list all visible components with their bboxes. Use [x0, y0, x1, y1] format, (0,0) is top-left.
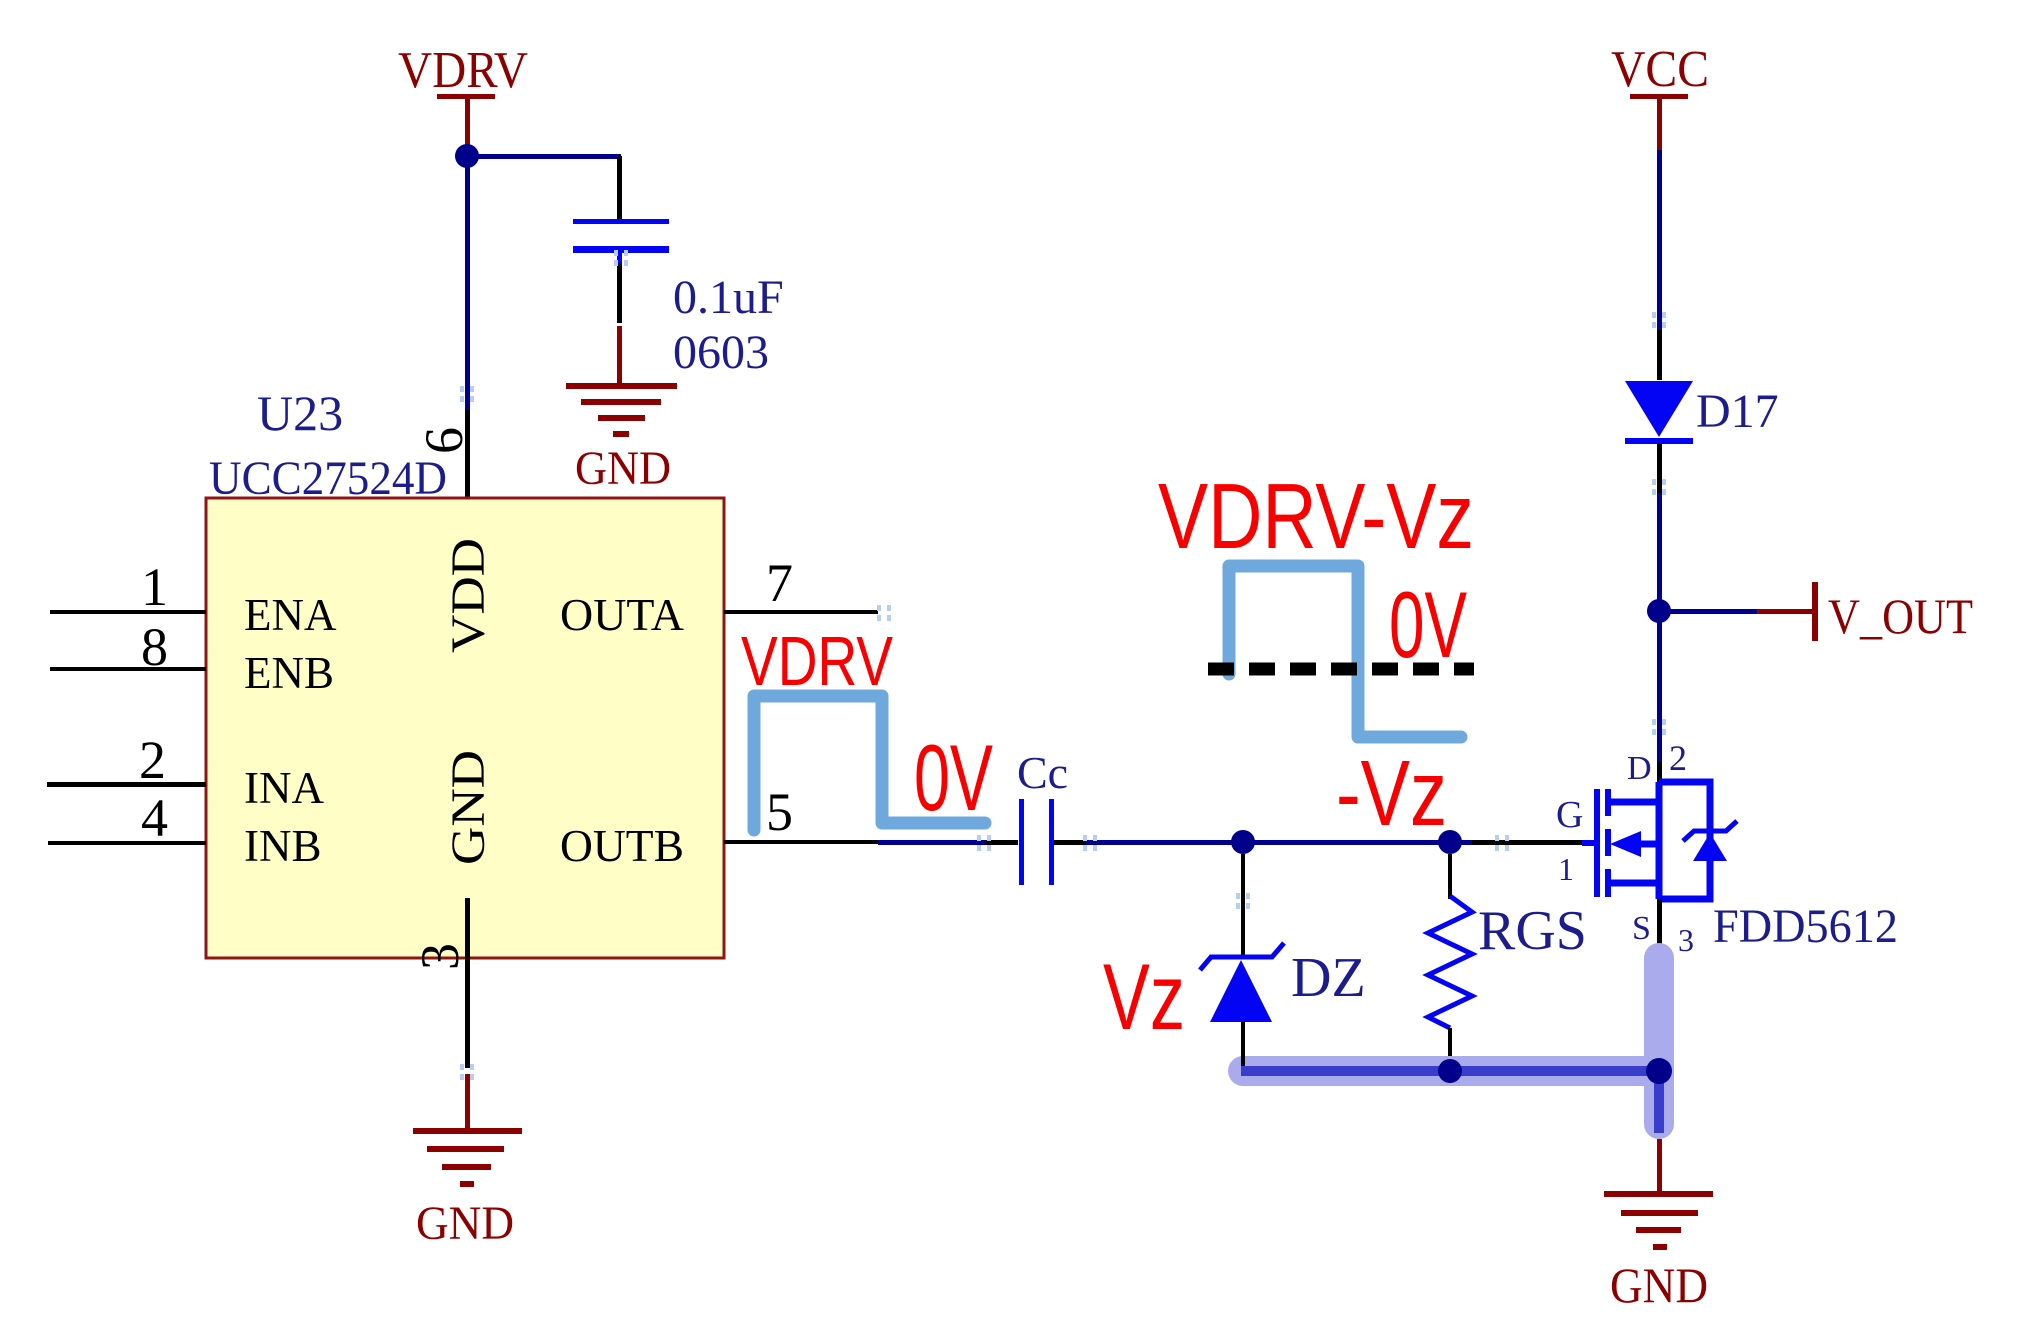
- svg-text:D: D: [1627, 750, 1652, 787]
- svg-text:ENB: ENB: [244, 648, 334, 698]
- svg-text:0V: 0V: [914, 725, 993, 830]
- capacitor 0.1uF bypass: [573, 219, 669, 263]
- annotation waveform VDRV-Vz pulse (light blue): [1229, 566, 1461, 737]
- ground GND (bottom-right, source): [1604, 1191, 1713, 1250]
- svg-text:INA: INA: [244, 763, 324, 813]
- svg-text:VDRV: VDRV: [741, 622, 893, 700]
- IC U1 body UCC27524D: [206, 498, 724, 958]
- svg-text:Vz: Vz: [1103, 944, 1185, 1049]
- svg-text:VDD: VDD: [442, 538, 495, 653]
- port V_OUT: [1812, 582, 1818, 641]
- wire D17 to V_OUT node: [1657, 444, 1662, 493]
- diode D17: [1625, 381, 1693, 437]
- svg-text:3: 3: [410, 943, 470, 970]
- svg-text:VCC: VCC: [1611, 41, 1709, 98]
- wire node A to zener DZ: [1241, 854, 1245, 955]
- svg-text:2: 2: [139, 730, 166, 790]
- wire junction to V_OUT port: [1659, 609, 1757, 614]
- wire VDRV junction to bypass cap (horizontal then down): [465, 154, 621, 159]
- wire node B to resistor RGS: [1448, 854, 1452, 899]
- svg-text:OUTB: OUTB: [560, 821, 684, 871]
- wire cap to GND: [617, 263, 622, 323]
- svg-text:0V: 0V: [1389, 572, 1467, 677]
- arrow (gate-source): [1610, 831, 1641, 857]
- svg-text:5: 5: [766, 782, 793, 842]
- node VDRV junction: [455, 144, 479, 168]
- node rail/RGS junction: [1438, 1059, 1462, 1083]
- svg-text:DZ: DZ: [1291, 947, 1366, 1009]
- svg-text:0603: 0603: [673, 326, 769, 379]
- svg-text:ENA: ENA: [244, 590, 337, 640]
- transistor Q1 FDD5612 (N-MOSFET): [1597, 789, 1608, 897]
- ground GND (top, under bypass cap): [566, 383, 677, 437]
- pin 1 wire ENA: [50, 610, 206, 614]
- svg-text:4: 4: [141, 788, 168, 848]
- resistor RGS: [1428, 896, 1472, 1028]
- svg-text:1: 1: [141, 557, 168, 617]
- svg-text:7: 7: [766, 553, 793, 613]
- node rail/source junction: [1646, 1058, 1672, 1084]
- pin 3 wire GND pad: [465, 898, 470, 1068]
- svg-text:3: 3: [1678, 922, 1694, 958]
- svg-text:UCC27524D: UCC27524D: [209, 452, 447, 505]
- wire VDRV junction to VDD pin (vertical): [465, 156, 470, 410]
- body zener diode of Q1: [1683, 821, 1737, 841]
- svg-text:VDRV: VDRV: [398, 42, 528, 99]
- wire ground rail (highlighted): [1241, 1071, 1659, 1133]
- svg-text:2: 2: [1669, 738, 1687, 778]
- svg-text:GND: GND: [575, 442, 671, 495]
- wire DZ to ground rail: [1241, 1022, 1245, 1066]
- capacitor Cc: [1019, 799, 1054, 885]
- ground GND (bottom-left, IC pin 3): [413, 1128, 522, 1187]
- svg-text:INB: INB: [244, 821, 322, 871]
- wire OUTB to Cc: [878, 840, 985, 845]
- pin 5 wire OUTB (black stub): [724, 840, 878, 844]
- svg-text:FDD5612: FDD5612: [1713, 900, 1898, 953]
- node A (Cc / DZ junction): [1231, 830, 1255, 854]
- highlighted net glow (source to ground rail): [1243, 958, 1659, 1124]
- svg-text:RGS: RGS: [1478, 900, 1587, 962]
- power port VDRV (top-left): [398, 42, 528, 152]
- power port VCC (top-right): [1611, 41, 1709, 152]
- wire Cc to gate node: [1054, 840, 1086, 845]
- svg-text:OUTA: OUTA: [560, 590, 684, 640]
- svg-text:GND: GND: [1610, 1257, 1708, 1313]
- svg-text:Cc: Cc: [1017, 747, 1068, 798]
- wire seam markers (compile masks): [460, 250, 1666, 1080]
- svg-text:D17: D17: [1696, 385, 1779, 438]
- svg-text:GND: GND: [442, 750, 495, 865]
- svg-text:GND: GND: [416, 1197, 514, 1250]
- wire rail to GND: [1657, 1139, 1662, 1194]
- svg-text:G: G: [1556, 794, 1583, 836]
- zener diode DZ: [1200, 943, 1284, 970]
- svg-text:VDRV-Vz: VDRV-Vz: [1158, 464, 1474, 568]
- svg-text:6: 6: [414, 427, 474, 454]
- wire DZ stub into rail: [1241, 1040, 1245, 1066]
- pin 4 wire INB: [48, 841, 206, 845]
- wire MOSFET source down: [1657, 899, 1662, 1069]
- svg-text:0.1uF: 0.1uF: [673, 271, 784, 324]
- svg-text:U23: U23: [257, 385, 343, 441]
- svg-text:-Vz: -Vz: [1336, 741, 1447, 845]
- annotation waveform VDRV pulse (light blue): [754, 696, 985, 830]
- pin 8 wire ENB: [50, 667, 206, 671]
- wire V_OUT node to MOSFET drain: [1657, 617, 1662, 762]
- svg-text:8: 8: [141, 617, 168, 677]
- wire RGS to ground rail: [1448, 1028, 1452, 1066]
- pin 2 wire INA: [47, 782, 206, 787]
- svg-text:1: 1: [1558, 851, 1574, 887]
- node B (RGS / gate junction): [1438, 830, 1462, 854]
- svg-text:V_OUT: V_OUT: [1828, 588, 1973, 644]
- wire VCC to D17: [1657, 150, 1662, 330]
- svg-text:S: S: [1632, 910, 1651, 947]
- pin 7 wire OUTA: [724, 610, 878, 614]
- annotation 0V dashed baseline: [1208, 663, 1474, 676]
- node V_OUT junction: [1647, 599, 1671, 623]
